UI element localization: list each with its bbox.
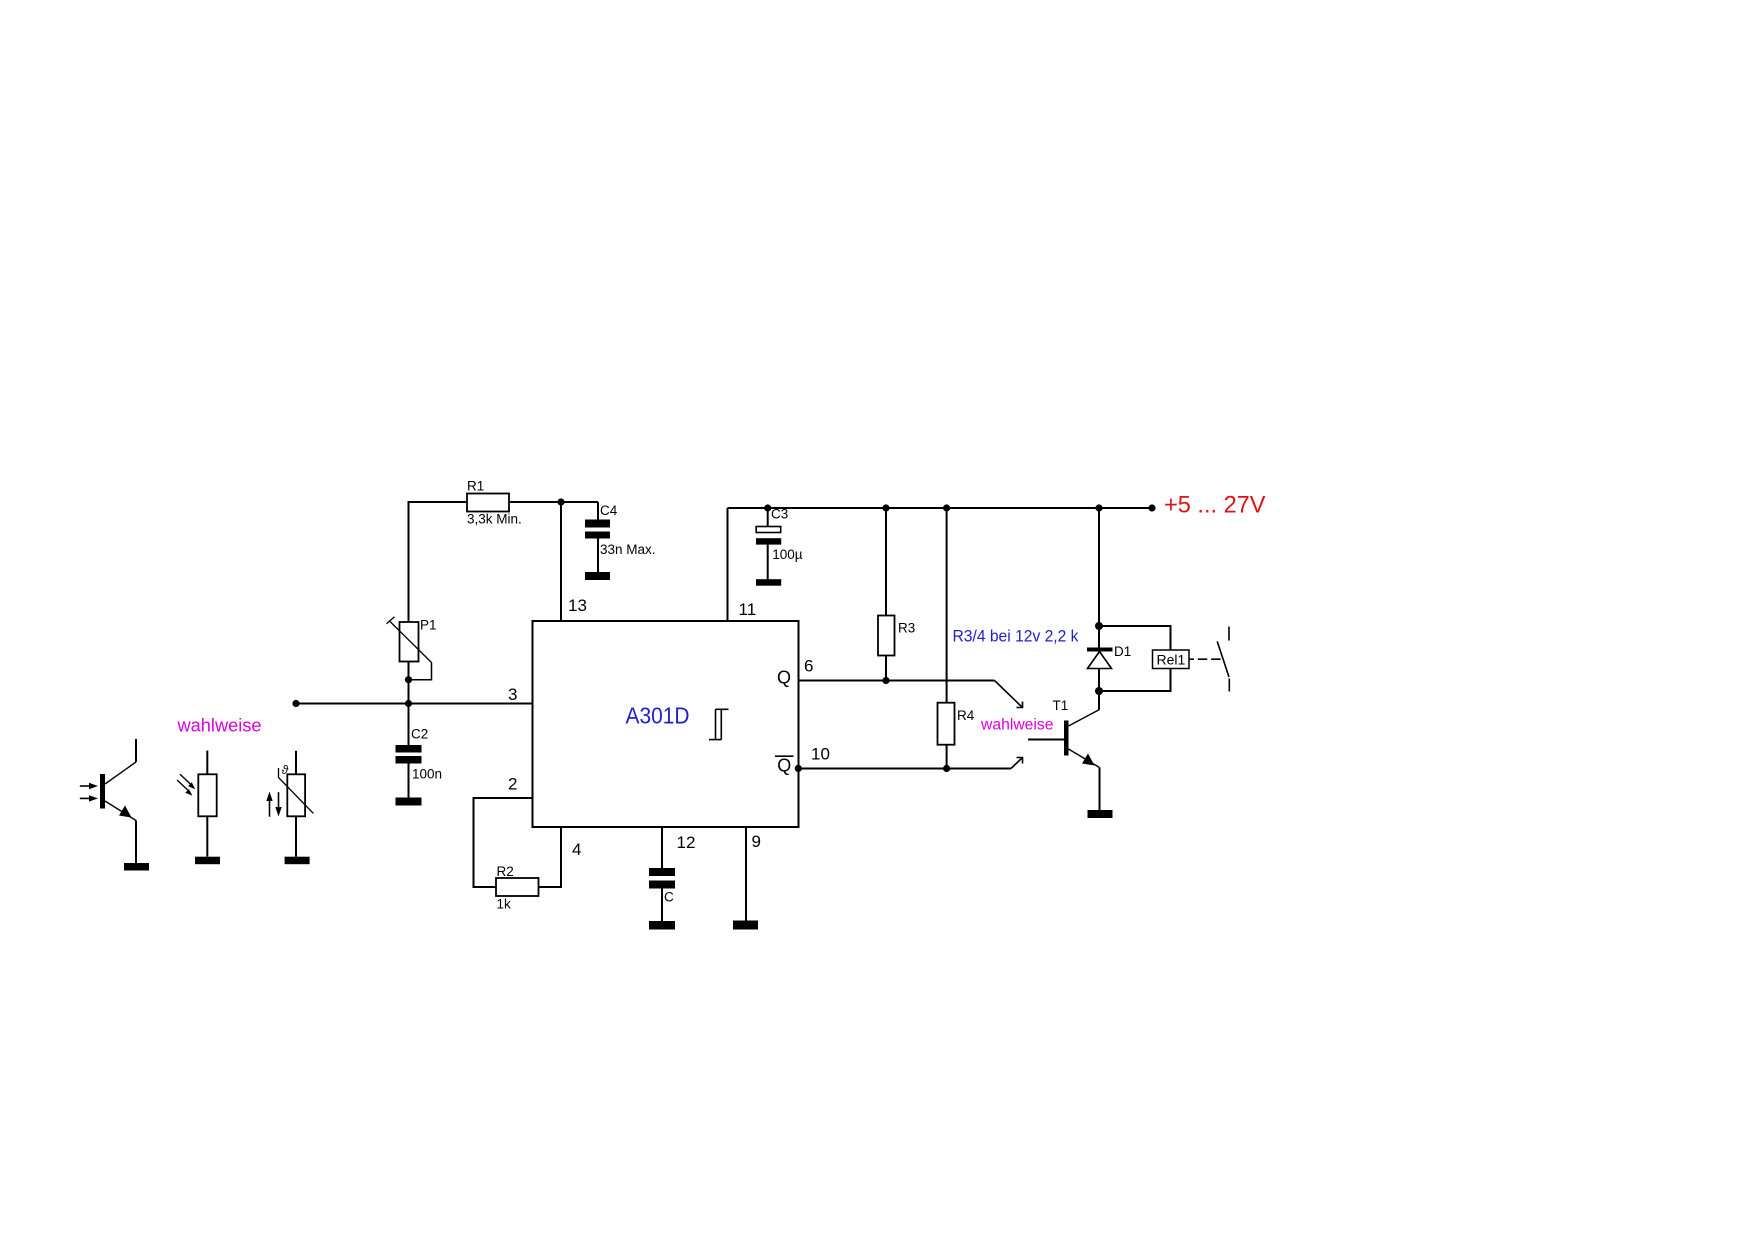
- hysteresis symbol inside IC: [709, 709, 729, 739]
- terminal dot left: [292, 700, 299, 707]
- wire D1 to node bottom: [1098, 669, 1100, 710]
- svg-text:P1: P1: [420, 618, 437, 633]
- arrow from Q toward base: [995, 681, 1023, 708]
- diode D1 branch wire from rail: [1098, 508, 1100, 648]
- pin 11 wire: [727, 508, 729, 621]
- rail junction for D1: [1095, 504, 1102, 511]
- light arrows into photoresistor: [177, 774, 195, 796]
- wire net 3: [296, 703, 533, 705]
- relay Rel1: [1153, 650, 1190, 669]
- pin 2 wire: [474, 798, 533, 887]
- junction Q/R3: [882, 677, 889, 684]
- svg-text:R2: R2: [497, 864, 514, 879]
- power rail +V: [728, 507, 1153, 509]
- resistor R2: [496, 864, 539, 912]
- rail terminal dot: [1148, 504, 1155, 511]
- svg-text:100n: 100n: [412, 767, 442, 782]
- svg-text:ϑ: ϑ: [282, 763, 289, 777]
- diode D1: [1087, 644, 1131, 669]
- junction Qbar/R4: [943, 765, 950, 772]
- ground pin 9: [733, 921, 758, 930]
- svg-text:C4: C4: [600, 503, 618, 518]
- svg-text:wahlweise: wahlweise: [980, 717, 1054, 734]
- ground below C3: [756, 579, 781, 586]
- ground below thermistor: [285, 857, 310, 865]
- svg-text:R3: R3: [898, 621, 915, 636]
- svg-text:Q: Q: [777, 668, 791, 688]
- phototransistor: [100, 739, 136, 863]
- node D1 top: [1095, 622, 1103, 630]
- svg-text:3,3k Min.: 3,3k Min.: [467, 512, 522, 527]
- ground T1 emitter: [1088, 810, 1113, 818]
- svg-text:Q: Q: [777, 755, 791, 775]
- pin 10 dot at IC edge: [795, 765, 802, 772]
- svg-text:1k: 1k: [497, 897, 512, 912]
- svg-text:R4: R4: [957, 708, 975, 723]
- light arrows into phototransistor: [80, 783, 98, 802]
- up/down arrows at thermistor: [266, 792, 281, 817]
- ground below C4: [585, 572, 610, 580]
- svg-text:12: 12: [677, 833, 696, 852]
- svg-text:9: 9: [752, 832, 761, 851]
- svg-text:13: 13: [568, 596, 587, 615]
- wire pin 13: [560, 502, 562, 621]
- wire R2 right to pin 4: [539, 827, 562, 887]
- junction wiper node: [405, 676, 412, 683]
- svg-text:R3/4 bei 12v 2,2 k: R3/4 bei 12v 2,2 k: [953, 628, 1080, 646]
- svg-text:R1: R1: [467, 479, 484, 494]
- svg-text:6: 6: [804, 657, 813, 676]
- pin 12 wire: [661, 827, 663, 868]
- svg-text:4: 4: [572, 840, 581, 859]
- resistor R4: [938, 504, 975, 768]
- potentiometer P1: [387, 617, 437, 680]
- resistor R3: [878, 504, 915, 680]
- svg-text:wahlweise: wahlweise: [176, 716, 261, 736]
- capacitor C3 (polarized): [756, 504, 803, 579]
- ground below photoresistor: [195, 857, 220, 865]
- resistor R1: [467, 479, 522, 527]
- svg-text:10: 10: [811, 745, 830, 764]
- svg-text:+5 ... 27V: +5 ... 27V: [1164, 492, 1266, 519]
- svg-text:Rel1: Rel1: [1157, 652, 1186, 668]
- svg-text:2: 2: [508, 775, 517, 794]
- wire P1 bottom to node3: [408, 662, 410, 704]
- svg-text:T1: T1: [1053, 698, 1069, 713]
- capacitor C4: [585, 502, 656, 572]
- wire R1 right to C4 node: [509, 501, 598, 503]
- IC U1 A301D: [533, 621, 799, 827]
- wire from R1 left to P1 top: [409, 502, 468, 622]
- ground below C: [649, 921, 675, 930]
- svg-text:C2: C2: [411, 727, 428, 742]
- label Qbar: [775, 755, 794, 775]
- svg-text:100µ: 100µ: [772, 547, 803, 562]
- svg-text:11: 11: [739, 600, 757, 619]
- dashed link to switch: [1189, 658, 1223, 660]
- svg-text:C3: C3: [771, 506, 788, 521]
- svg-text:33n Max.: 33n Max.: [600, 542, 656, 557]
- photoresistor: [198, 751, 216, 857]
- svg-text:A301D: A301D: [626, 703, 690, 729]
- capacitor C2: [396, 704, 443, 798]
- transistor T1: [1028, 698, 1100, 768]
- svg-text:C: C: [664, 890, 674, 905]
- ground below phototransistor: [124, 863, 149, 871]
- T1 emitter wire: [1099, 768, 1101, 811]
- relay Rel1 branch wires: [1099, 626, 1171, 650]
- switch contact: [1217, 627, 1229, 692]
- thermistor: [279, 751, 314, 857]
- pin 9 wire: [745, 827, 747, 921]
- arrow from Qbar toward base: [1011, 758, 1023, 769]
- wire Qbar pin 10: [799, 768, 1012, 770]
- svg-text:3: 3: [508, 685, 517, 704]
- capacitor C: [649, 868, 675, 921]
- ground below C2: [396, 798, 422, 806]
- svg-text:D1: D1: [1114, 644, 1131, 659]
- junction net3/C2: [405, 700, 412, 707]
- node D1 bottom: [1095, 687, 1103, 695]
- node at pin13/C4 net: [557, 498, 564, 505]
- wire Q pin 6: [799, 680, 995, 682]
